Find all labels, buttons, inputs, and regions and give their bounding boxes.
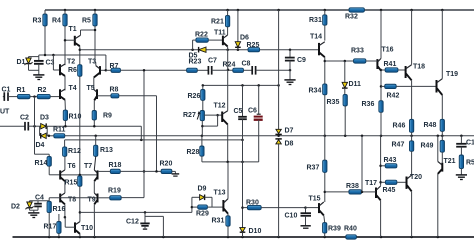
svg-text:T1: T1 xyxy=(69,26,77,33)
svg-text:R1: R1 xyxy=(17,87,26,94)
svg-text:R23: R23 xyxy=(189,59,202,66)
svg-text:T16: T16 xyxy=(382,47,394,54)
svg-text:C7: C7 xyxy=(208,58,217,65)
svg-text:T7: T7 xyxy=(84,163,92,170)
svg-text:R48: R48 xyxy=(424,122,437,129)
svg-text:R29: R29 xyxy=(196,211,209,218)
svg-text:T15: T15 xyxy=(309,196,321,203)
svg-text:R41: R41 xyxy=(384,61,397,68)
svg-text:D10: D10 xyxy=(249,228,262,235)
svg-text:D4: D4 xyxy=(36,142,45,149)
svg-text:R16: R16 xyxy=(53,206,66,213)
svg-text:R28: R28 xyxy=(187,149,200,156)
svg-text:R38: R38 xyxy=(346,183,359,190)
svg-text:R30: R30 xyxy=(246,200,259,207)
svg-text:C5: C5 xyxy=(234,108,243,115)
svg-text:T6: T6 xyxy=(68,163,76,170)
svg-text:R26: R26 xyxy=(188,93,201,100)
svg-text:D8: D8 xyxy=(285,141,294,148)
svg-text:R35: R35 xyxy=(327,99,340,106)
svg-text:C4: C4 xyxy=(35,195,44,202)
svg-text:R42: R42 xyxy=(387,93,400,100)
svg-text:T20: T20 xyxy=(410,174,422,181)
svg-text:C10: C10 xyxy=(285,213,298,220)
svg-text:R31: R31 xyxy=(212,218,225,225)
svg-text:R21: R21 xyxy=(211,19,224,26)
svg-text:D3: D3 xyxy=(40,115,49,122)
svg-text:R43: R43 xyxy=(384,157,397,164)
svg-text:T14: T14 xyxy=(310,34,322,41)
svg-text:D9: D9 xyxy=(198,186,207,193)
svg-text:R7: R7 xyxy=(110,63,119,70)
svg-text:UT: UT xyxy=(0,109,10,116)
svg-text:C1: C1 xyxy=(2,87,11,94)
svg-text:C6: C6 xyxy=(248,108,257,115)
svg-text:T18: T18 xyxy=(413,64,425,71)
svg-text:R10: R10 xyxy=(69,114,82,121)
svg-text:R46: R46 xyxy=(393,123,406,130)
svg-text:R11: R11 xyxy=(53,127,66,134)
svg-text:T12: T12 xyxy=(214,103,226,110)
svg-text:D7: D7 xyxy=(285,128,294,135)
svg-text:R45: R45 xyxy=(383,187,396,194)
svg-text:T11: T11 xyxy=(214,30,226,37)
svg-text:C9: C9 xyxy=(297,57,306,64)
svg-text:R2: R2 xyxy=(38,87,47,94)
svg-text:R8: R8 xyxy=(110,87,119,94)
svg-text:T13: T13 xyxy=(214,190,226,197)
svg-text:R47: R47 xyxy=(392,142,405,149)
svg-text:D2: D2 xyxy=(11,204,20,211)
svg-text:R49: R49 xyxy=(421,143,434,150)
svg-text:T2: T2 xyxy=(67,59,75,66)
svg-text:R4: R4 xyxy=(52,18,61,25)
svg-text:R27: R27 xyxy=(183,112,196,119)
svg-text:R15: R15 xyxy=(65,180,78,187)
svg-text:D11: D11 xyxy=(349,81,362,88)
svg-text:T10: T10 xyxy=(81,225,93,232)
svg-text:R5: R5 xyxy=(466,160,474,167)
svg-text:C2: C2 xyxy=(20,115,29,122)
svg-text:D1: D1 xyxy=(17,59,26,66)
svg-text:R3: R3 xyxy=(33,18,42,25)
svg-text:T4: T4 xyxy=(69,85,77,92)
svg-text:T5: T5 xyxy=(87,85,95,92)
svg-text:R34: R34 xyxy=(309,88,322,95)
svg-text:C12: C12 xyxy=(126,219,139,226)
svg-text:R9: R9 xyxy=(103,113,112,120)
svg-text:R32: R32 xyxy=(345,14,358,21)
svg-text:R37: R37 xyxy=(307,165,320,172)
svg-text:R33: R33 xyxy=(351,48,364,55)
svg-text:R25: R25 xyxy=(247,42,260,49)
svg-text:C8: C8 xyxy=(242,61,251,68)
svg-text:R40: R40 xyxy=(344,226,357,233)
svg-text:R36: R36 xyxy=(362,101,375,108)
svg-text:T21: T21 xyxy=(444,158,456,165)
svg-text:R14: R14 xyxy=(35,160,48,167)
svg-text:C1: C1 xyxy=(466,140,474,147)
svg-text:R18: R18 xyxy=(109,162,122,169)
svg-text:D6: D6 xyxy=(240,35,249,42)
svg-text:T17: T17 xyxy=(365,180,377,187)
svg-text:R17: R17 xyxy=(44,224,57,231)
svg-text:R24: R24 xyxy=(223,62,236,69)
svg-text:R5: R5 xyxy=(82,18,91,25)
svg-text:T3: T3 xyxy=(88,59,96,66)
svg-text:R12: R12 xyxy=(68,148,81,155)
svg-text:R22: R22 xyxy=(195,32,208,39)
svg-text:R13: R13 xyxy=(100,147,113,154)
svg-text:R20: R20 xyxy=(160,161,173,168)
svg-text:R39: R39 xyxy=(328,226,341,233)
svg-text:R19: R19 xyxy=(108,188,121,195)
svg-text:R6: R6 xyxy=(68,67,77,74)
svg-text:T19: T19 xyxy=(446,71,458,78)
svg-text:R31: R31 xyxy=(309,17,322,24)
